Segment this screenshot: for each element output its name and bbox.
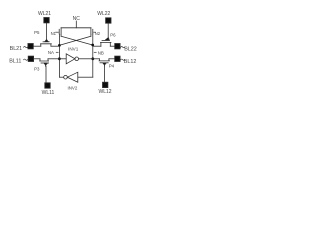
inverter INV2 — [64, 72, 78, 82]
node N1 label — [51, 31, 59, 36]
node BL22 terminal square — [115, 44, 120, 49]
svg-text:WL21: WL21 — [38, 11, 51, 17]
wire P4 to BL12 — [109, 58, 115, 60]
wire BL21 to P5 — [33, 45, 41, 47]
wire BL11 to P3 — [34, 58, 40, 60]
wire INV2 output bubble to NA — [59, 76, 63, 78]
node NA label — [48, 50, 58, 55]
junction dot NB upper — [91, 44, 94, 47]
node WL21 terminal square — [44, 18, 49, 23]
node WL22 terminal square — [106, 18, 111, 23]
wire NB to P6 — [93, 45, 101, 47]
svg-text:BL11: BL11 — [9, 59, 21, 65]
wire NA to INV1 input — [59, 58, 66, 60]
junction dot NA upper — [58, 44, 61, 47]
wire P5 to node NA — [51, 45, 60, 47]
svg-text:NA: NA — [48, 50, 54, 55]
node WL12 terminal square — [103, 82, 108, 87]
node NA vertical line — [58, 34, 60, 77]
svg-text:WL12: WL12 — [98, 89, 111, 95]
junction dot NB at INV1 output — [91, 57, 94, 60]
svg-text:NB: NB — [98, 50, 104, 55]
node NB label — [94, 50, 104, 55]
transistor P6 — [101, 37, 112, 46]
transistor P5 — [41, 39, 52, 46]
wire P4 gate to WL12 — [103, 66, 105, 82]
svg-text:INV2: INV2 — [68, 86, 78, 91]
svg-text:WL22: WL22 — [97, 11, 110, 17]
transistor N1 — [59, 28, 61, 36]
wire WL21 to gate of P5 — [45, 23, 47, 40]
tilde lead BL22 — [121, 46, 125, 47]
node BL12 terminal square — [115, 56, 120, 61]
tilde lead BL11 — [24, 59, 28, 60]
wire P6 to BL22 — [110, 45, 114, 47]
wire P3 to node NA / INV1 input — [48, 58, 59, 60]
transistor P3 — [40, 59, 49, 67]
wire WL22 to gate of P6 — [107, 23, 109, 37]
wire INV1 output to NB — [79, 58, 93, 60]
svg-text:BL12: BL12 — [124, 59, 137, 65]
junction dot NA at INV1 input — [58, 57, 61, 60]
wire NB to P4 — [93, 58, 100, 60]
transistor N2 — [91, 28, 93, 36]
wire NC stub to top rail — [75, 21, 77, 28]
svg-text:WL11: WL11 — [42, 90, 55, 96]
tilde lead BL21 — [24, 46, 28, 47]
node WL11 terminal square — [45, 83, 50, 88]
svg-text:P3: P3 — [34, 67, 40, 72]
wire INV2 input to NB — [78, 76, 93, 78]
node BL21 terminal square — [28, 44, 33, 49]
svg-text:N1: N1 — [51, 31, 57, 36]
node N2 label — [94, 31, 101, 36]
wire cross-couple diagonal N1 source to NB — [61, 36, 93, 45]
wire P3 gate to WL11 — [45, 66, 47, 83]
svg-text:P6: P6 — [110, 33, 116, 38]
wire cross-couple diagonal N2 source to NA — [60, 36, 91, 45]
node NB vertical line — [92, 34, 94, 77]
svg-text:INV1: INV1 — [68, 46, 79, 51]
transistor P4 — [99, 59, 110, 66]
wire top rail — [61, 27, 91, 29]
node BL11 terminal square — [28, 56, 33, 61]
svg-text:P5: P5 — [34, 30, 40, 35]
inverter INV1 — [66, 54, 78, 64]
svg-text:BL21: BL21 — [10, 46, 23, 52]
tilde lead BL12 — [121, 59, 125, 60]
svg-text:N2: N2 — [95, 31, 101, 36]
svg-text:BL22: BL22 — [124, 46, 137, 52]
svg-text:P4: P4 — [109, 63, 115, 68]
